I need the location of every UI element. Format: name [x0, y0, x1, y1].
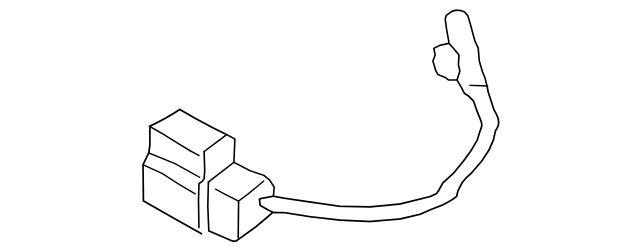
relay body: upper ledge line	[149, 153, 200, 178]
connector bracket outline (right edge, rounded top, left edge)	[445, 10, 487, 86]
wire: outer/top line from socket to connector neck	[273, 93, 481, 207]
relay body: top face edge L-F (stops short of F)	[150, 126, 200, 155]
socket box: bottom edges	[209, 212, 273, 241]
relay body: lower ledge line	[143, 165, 195, 194]
socket box: right corner chamfer down to wire junction	[264, 175, 274, 196]
socket box: left vertical edge	[208, 182, 209, 231]
socket box: front corner vertical edge	[237, 201, 239, 237]
relay body: right top short edge and back-right edge	[227, 135, 235, 163]
socket box: front top edge F2-R2	[239, 181, 264, 201]
relay body: top face edge A-L	[150, 110, 180, 127]
wire grommet wedge at socket	[259, 196, 273, 212]
socket box: top edge B2-L2	[208, 162, 234, 182]
relay body: left edge with step jog	[143, 126, 150, 201]
connector neck line to blob	[457, 80, 464, 93]
socket box: top back edge B2-R2	[234, 162, 264, 175]
relay body: top face edge F-R	[204, 135, 227, 152]
socket box: front edge L2-F2 (starts short of L2)	[216, 189, 239, 201]
wire: inner/bottom line continuing into bracket outline	[273, 86, 498, 221]
relay body: front corner edge with jog	[199, 152, 205, 228]
relay body: top face edge A-R	[180, 110, 227, 135]
relay body: bottom-left edge	[143, 201, 201, 234]
connector body blob	[433, 43, 460, 80]
connector bracket: bottom horizontal edge	[470, 84, 488, 87]
